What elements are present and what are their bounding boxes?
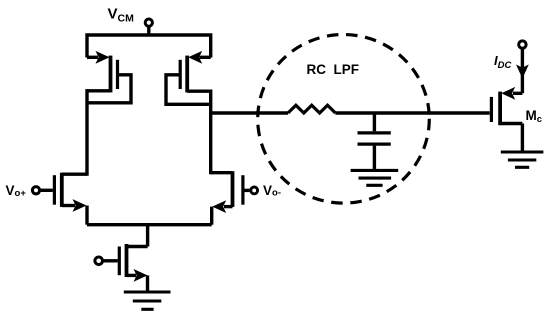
capacitor C (358, 113, 391, 169)
pmos right load (166, 51, 211, 104)
terminal Vo+ (32, 187, 52, 194)
resistor R (288, 105, 335, 113)
terminal VCM (145, 19, 152, 35)
wire right drain (209, 90, 212, 175)
label Vo+ (6, 183, 27, 199)
wire tail source to ground (146, 275, 149, 291)
nmos input right (211, 171, 243, 213)
wire tail rail (87, 225, 212, 247)
RC LPF highlight circle (258, 35, 430, 204)
ground tail (124, 292, 171, 309)
wire VDD rail (87, 35, 211, 58)
terminal tail gate (95, 257, 118, 265)
nmos input left (54, 173, 87, 212)
transistor Mc (491, 87, 522, 125)
terminal IDC (519, 41, 526, 48)
ground Mc (501, 152, 544, 167)
wire left drain (85, 89, 88, 176)
wire IDC (521, 50, 524, 94)
label RC LPF (307, 62, 360, 77)
wire M1 source (85, 206, 88, 225)
terminal Vo- (243, 187, 258, 194)
wire output node (211, 111, 490, 114)
label Mc (526, 108, 543, 125)
wire M2 source (210, 207, 213, 225)
wire Mc drain to ground (521, 124, 524, 151)
ground capacitor (351, 170, 399, 185)
label VCM (108, 6, 135, 25)
nmos tail (119, 244, 147, 282)
label IDC (494, 53, 511, 71)
label Vo- (263, 183, 281, 199)
svg-text:RC LPF: RC LPF (307, 62, 360, 77)
current arrow IDC (516, 65, 529, 79)
pmos left load (87, 51, 131, 103)
